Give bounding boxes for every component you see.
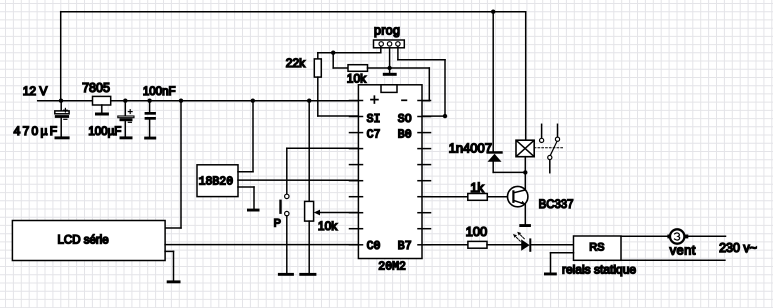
diode 1n4007 (449, 12, 526, 173)
svg-text:P: P (274, 217, 281, 229)
regulator 7805 (82, 81, 111, 113)
transistor Q1 BC337 (508, 172, 574, 224)
svg-text:relais statique: relais statique (562, 262, 636, 276)
svg-text:B0: B0 (398, 129, 412, 142)
ground (LCD) (167, 280, 181, 283)
svg-text:22k: 22k (286, 56, 306, 70)
ground (RS) (544, 273, 557, 276)
wire 18B20 +5V (238, 101, 253, 172)
svg-text:SI: SI (367, 113, 381, 126)
IC U1 PICAXE 20M2 (350, 85, 431, 274)
wire LCD ground (165, 251, 173, 280)
box LCD serial display (12, 221, 165, 261)
svg-text:100: 100 (466, 224, 488, 239)
ground (emitter) (519, 224, 531, 227)
svg-text:20M2: 20M2 (378, 260, 406, 273)
node junction 5V-pot (307, 99, 311, 103)
svg-text:10k: 10k (318, 219, 338, 233)
ground (7805) (95, 113, 109, 116)
node junction 10k-ground (387, 66, 391, 70)
svg-text:C7: C7 (367, 129, 381, 142)
wire +12V top rail (61, 12, 526, 101)
ground (prog) (383, 73, 397, 76)
ground (potentiometer) (299, 273, 316, 276)
box RS relais statique (562, 236, 636, 276)
node junction 5V-100nF (147, 99, 151, 103)
svg-text:C0: C0 (367, 240, 381, 253)
wire 18B20 ground (238, 187, 254, 209)
ground (100uF) (120, 136, 133, 139)
svg-text:10k: 10k (347, 71, 367, 85)
ground (pushbutton) (278, 273, 294, 276)
svg-text:B7: B7 (398, 240, 412, 253)
relay coil K1 (516, 12, 534, 173)
potentiometer 10k (305, 101, 358, 273)
wire +5V main rail (38, 100, 366, 102)
svg-text:18B20: 18B20 (199, 175, 234, 188)
svg-text:LCD série: LCD série (58, 234, 109, 246)
node junction SO (443, 114, 447, 118)
svg-text:7805: 7805 (82, 81, 110, 95)
wire prog pin3 to SO (398, 47, 445, 117)
resistor 22k (286, 53, 322, 77)
motor fan vent (667, 229, 695, 257)
wire LCD +5V (165, 101, 181, 228)
svg-text:1n4007: 1n4007 (449, 140, 492, 155)
node junction 5V-100uF (123, 99, 127, 103)
connector prog (374, 23, 405, 48)
wire LCD data to C0 (165, 244, 358, 246)
ground (100nF) (144, 137, 156, 140)
LED D2 (513, 232, 574, 251)
wire ground junction to minus pin (390, 68, 430, 101)
node junction prog-10k (331, 51, 335, 55)
svg-text:prog: prog (374, 23, 400, 37)
wire 18B20 data to C4 (238, 179, 358, 181)
svg-text:1k: 1k (470, 180, 484, 195)
svg-text:RS: RS (589, 242, 604, 254)
resistor 10k serial (347, 65, 390, 86)
node junction relay-collector (523, 170, 527, 174)
wire 230V bottom (621, 259, 725, 261)
wire 230V top (621, 235, 726, 237)
relay contact switch (534, 124, 564, 172)
svg-text:470µF: 470µF (14, 124, 58, 138)
wire prog pin1 to 22k (318, 47, 381, 53)
svg-text:SO: SO (398, 113, 412, 126)
node 230V label (719, 241, 757, 255)
capacitor 100nF (143, 86, 176, 137)
pushbutton P (274, 148, 358, 273)
svg-text:230 v~: 230 v~ (719, 241, 757, 255)
ground (18B20) (247, 209, 260, 212)
svg-text:vent: vent (670, 243, 696, 258)
node junction 12V-diode (491, 10, 495, 14)
wire junction to 10k (333, 53, 348, 68)
wire prog pin2 to ground (389, 48, 391, 73)
ground (470uF) (55, 136, 70, 139)
node junction 5V-LCD (179, 99, 183, 103)
capacitor 100uF (88, 101, 134, 139)
node junction 12V-470uF (59, 99, 63, 103)
svg-text:12 V: 12 V (23, 84, 48, 98)
svg-text:100nF: 100nF (143, 86, 176, 98)
resistor 1k (426, 180, 508, 200)
capacitor 470uF (14, 101, 70, 139)
node junction 5V-18B20 (251, 99, 255, 103)
wire RS ground (551, 253, 574, 273)
node 12V input label (23, 84, 48, 98)
sensor 18B20 (197, 165, 238, 197)
svg-text:BC337: BC337 (539, 197, 574, 211)
resistor 100 (426, 224, 521, 248)
svg-text:100µF: 100µF (88, 126, 121, 138)
wire 22k to SI (318, 77, 358, 116)
